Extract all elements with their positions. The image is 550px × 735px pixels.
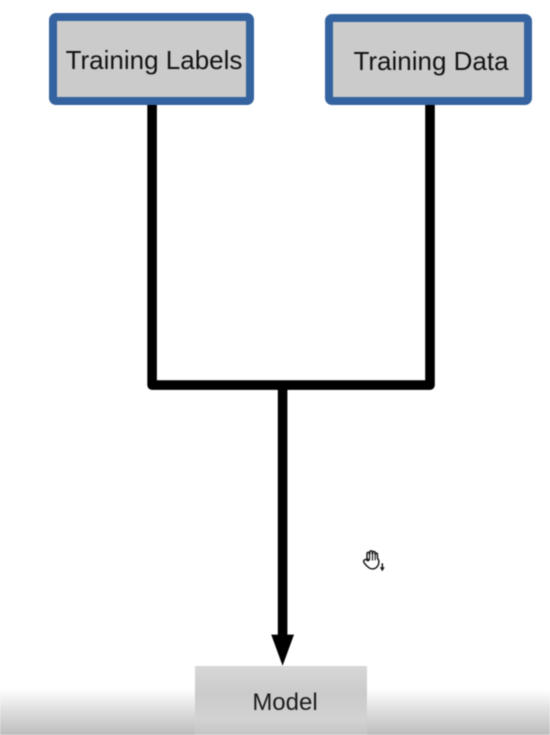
arrowhead into Model [271, 635, 294, 666]
wire: center stem down to Model [278, 385, 288, 637]
wire: U-shaped merge from Training Labels and Training Data [152, 95, 430, 385]
node: Model box [195, 666, 367, 735]
bottom gradient band [0, 689, 550, 735]
node: Training Data box [325, 14, 532, 105]
hand (pan) cursor with small down arrow [360, 546, 390, 576]
node: Training Labels box [49, 13, 254, 105]
